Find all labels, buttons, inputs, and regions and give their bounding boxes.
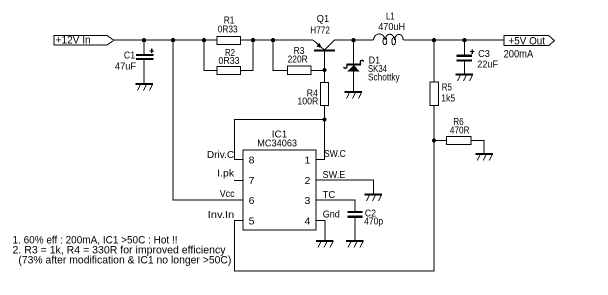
capacitor C3 <box>457 49 475 61</box>
svg-text:+5V Out: +5V Out <box>509 35 546 47</box>
diode D1 schottky <box>344 60 364 91</box>
svg-text:5: 5 <box>249 215 255 227</box>
op-amp IC1 box <box>243 150 316 230</box>
svg-text:6: 6 <box>249 195 255 207</box>
svg-text:0R33: 0R33 <box>218 24 238 35</box>
wire R5 branch <box>433 40 435 82</box>
wire Inv.In loop to R5/R6 junction <box>235 141 435 272</box>
wire R6 right <box>471 141 484 154</box>
wire R4 top <box>324 70 326 83</box>
wire R6 left <box>434 140 447 142</box>
wire I.pk stub <box>234 179 243 181</box>
wire C2 bottom <box>354 218 356 240</box>
svg-text:Inv.In: Inv.In <box>208 210 235 221</box>
svg-text:470R: 470R <box>450 125 470 136</box>
wire C1 branch <box>143 40 145 54</box>
node +12V In flag <box>54 36 114 46</box>
wire Vcc branch <box>173 40 243 200</box>
svg-text:3: 3 <box>304 195 310 207</box>
capacitor C2 <box>348 211 363 218</box>
svg-text:Q1: Q1 <box>317 14 330 25</box>
svg-text:47uF: 47uF <box>115 61 136 72</box>
svg-text:200mA: 200mA <box>504 48 534 60</box>
ground C1 <box>136 83 154 91</box>
resistor R2 <box>217 66 241 74</box>
wire R3 branch <box>273 40 287 70</box>
junction dots <box>142 38 467 142</box>
svg-text:1: 1 <box>304 154 310 166</box>
svg-text:C1: C1 <box>124 50 136 61</box>
resistor R6 <box>447 137 472 145</box>
ground C2 <box>346 240 364 248</box>
svg-text:Vcc: Vcc <box>220 189 235 200</box>
wire R4 bottom <box>324 106 326 120</box>
resistor R3 <box>287 66 311 74</box>
capacitor C1 <box>136 49 154 60</box>
resistor R4 <box>321 83 329 106</box>
svg-text:Schottky: Schottky <box>368 73 400 84</box>
svg-text:H772: H772 <box>310 26 330 37</box>
svg-text:100R: 100R <box>297 97 318 108</box>
wire rail left <box>114 39 313 41</box>
resistor R5 <box>430 82 439 106</box>
svg-text:470p: 470p <box>364 217 383 228</box>
svg-text:Gnd: Gnd <box>323 210 340 221</box>
svg-text:I.pk: I.pk <box>217 168 235 179</box>
ground pin4 <box>316 240 334 248</box>
svg-text:22uF: 22uF <box>477 59 498 70</box>
svg-text:7: 7 <box>249 175 255 187</box>
svg-text:R5: R5 <box>442 83 453 94</box>
svg-text:470uH: 470uH <box>378 22 405 33</box>
wire R5 bottom <box>433 106 435 141</box>
wire D1 branch <box>353 40 355 63</box>
svg-text:+12V In: +12V In <box>56 35 91 47</box>
ground C3 <box>456 74 474 82</box>
wire TC to C2 <box>316 200 355 211</box>
ground SW.E <box>365 194 383 202</box>
svg-text:2: 2 <box>304 175 310 187</box>
svg-text:4: 4 <box>304 215 310 227</box>
wire C3 branch <box>464 40 466 54</box>
svg-text:Driv.C: Driv.C <box>207 150 234 161</box>
transistor Q1 <box>313 40 335 70</box>
resistor R1 <box>217 36 241 44</box>
wire SW.E <box>316 180 374 193</box>
svg-text:SW.C: SW.C <box>324 149 346 160</box>
svg-text:MC34063: MC34063 <box>257 138 297 149</box>
wire rail mid <box>334 39 373 41</box>
svg-text:(73% after modification & IC1: (73% after modification & IC1 no longer … <box>18 255 231 267</box>
ground R6 <box>476 153 494 161</box>
wire Driv.C to SW.C top link <box>235 120 325 160</box>
svg-text:0R33: 0R33 <box>218 56 240 67</box>
svg-text:220R: 220R <box>288 55 308 66</box>
wire Gnd pin4 <box>316 221 325 241</box>
ground D1 <box>345 91 363 99</box>
svg-text:TC: TC <box>323 190 336 201</box>
svg-text:1k5: 1k5 <box>441 93 455 104</box>
svg-text:8: 8 <box>249 154 255 166</box>
wire R2 loop <box>204 40 217 70</box>
node +5V Out flag <box>504 36 555 46</box>
svg-text:SW.E: SW.E <box>323 170 346 181</box>
wire rail right <box>404 39 505 41</box>
inductor L1 <box>374 34 404 45</box>
